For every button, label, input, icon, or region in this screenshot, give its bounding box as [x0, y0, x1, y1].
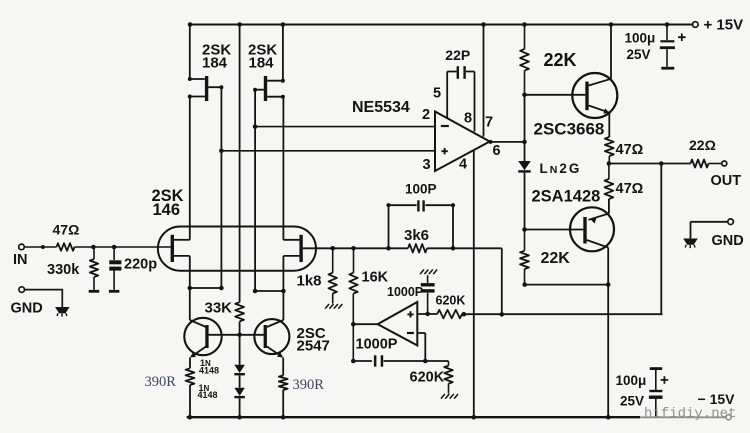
2SK184 no2 label	[248, 42, 277, 72]
svg-text:3k6: 3k6	[404, 227, 429, 244]
2SC3668 label	[534, 120, 605, 139]
2SK146 left drain lead	[174, 239, 190, 241]
wire 2SK184 no2 gate	[253, 88, 264, 127]
resistor 47R lower	[605, 164, 614, 200]
wire 22K lower to collector line	[522, 282, 610, 287]
wire right gate to feedback node	[303, 246, 408, 251]
1k8 ground hatch	[325, 304, 342, 309]
svg-text:4: 4	[459, 156, 467, 172]
resistor 22K lower	[520, 230, 529, 285]
left source node wire	[188, 286, 224, 291]
2SC3668 base bar	[585, 82, 588, 111]
svg-text:47Ω: 47Ω	[53, 222, 80, 238]
2SC3668 emitter wire with arrow	[589, 106, 610, 138]
47R lower label	[616, 181, 644, 197]
svg-text:2SA1428: 2SA1428	[532, 187, 601, 205]
right source node wire	[253, 289, 286, 294]
svg-text:2SC3668: 2SC3668	[534, 120, 605, 139]
resistor 390R no1	[186, 368, 195, 417]
IN label	[13, 252, 28, 268]
svg-text:1000P: 1000P	[356, 337, 398, 353]
IN terminal	[19, 244, 25, 250]
svg-text:100μ: 100μ	[616, 373, 647, 388]
base wire 2SA1428	[525, 229, 584, 231]
svg-text:390R: 390R	[145, 374, 177, 390]
1N4148 no2 label	[198, 383, 218, 400]
svg-text:100P: 100P	[405, 181, 437, 196]
transistor Q1 2SC2547 circle	[184, 318, 221, 355]
resistor 47R input	[57, 243, 75, 251]
resistor 3k6	[408, 244, 427, 252]
+15V terminal	[693, 22, 699, 28]
svg-text:OUT: OUT	[711, 173, 742, 189]
2SA1428 base node dot	[522, 227, 527, 232]
ground symbol output	[683, 239, 698, 249]
svg-text:620K: 620K	[436, 294, 466, 308]
wire 2SK184 no1 gate	[208, 85, 223, 151]
3k6 label	[404, 227, 429, 244]
wire to pin 3 non-inverting input	[221, 150, 435, 152]
svg-text:GND: GND	[11, 301, 43, 317]
svg-text:22P: 22P	[445, 47, 470, 63]
Q1 collector wire	[190, 288, 206, 327]
22K upper label	[544, 50, 577, 70]
47R input label	[53, 222, 80, 238]
pin 7 wire to +15V	[483, 25, 485, 137]
ground symbol input	[55, 307, 70, 317]
svg-text:hifidiy.net: hifidiy.net	[644, 406, 736, 422]
100p right wire	[425, 203, 455, 248]
wire 22K junction to diode	[524, 95, 526, 161]
620K lower ground hatch	[441, 394, 458, 399]
resistor 22K upper	[520, 25, 529, 95]
svg-text:2547: 2547	[297, 337, 330, 354]
capacitor 1000p upper	[421, 275, 435, 314]
svg-text:220p: 220p	[124, 257, 157, 273]
33K label	[205, 299, 233, 316]
Q2 2SC2547 label	[297, 325, 330, 355]
1000p upper ground hatch	[420, 270, 437, 275]
Q2 collector wire	[267, 291, 284, 327]
diode LN2G	[518, 161, 531, 230]
diode 1N4148 no1	[234, 335, 245, 376]
wire 2SK184 no1 source to 2SK146 drain	[188, 95, 205, 240]
servo non-inverting input wire	[417, 312, 437, 317]
wire GND output to ground	[691, 222, 728, 239]
1k8 label	[297, 272, 322, 289]
svg-text:22Ω: 22Ω	[689, 137, 716, 153]
330k label	[47, 262, 80, 278]
resistor 47R upper	[605, 137, 614, 164]
2SK184 no1 label	[202, 42, 231, 72]
Q1 base bar	[205, 325, 208, 348]
capacitor 1000p lower wire right	[384, 359, 449, 364]
svg-text:22K: 22K	[544, 50, 577, 70]
2SK146 right gate bar	[299, 235, 302, 262]
-15V terminal	[726, 415, 731, 420]
pin 6 label	[493, 143, 501, 159]
-15V rail faded extension	[640, 416, 726, 418]
620K lower label	[410, 370, 445, 386]
33K feed wire from rail	[239, 25, 241, 303]
-15V rail wire	[187, 416, 640, 418]
svg-text:5: 5	[433, 85, 441, 101]
base wire Q1-Q2	[209, 333, 264, 338]
pin 5 wire	[447, 72, 456, 119]
svg-text:NE5534: NE5534	[352, 99, 410, 116]
pin 4 wire to -15V	[473, 150, 475, 417]
svg-text:184: 184	[249, 55, 275, 72]
transistor 2SC3668 circle	[572, 73, 617, 118]
390R no2 label	[293, 377, 325, 393]
pin 5 label	[433, 85, 441, 101]
svg-text:25V: 25V	[627, 47, 651, 62]
op-amp U2 servo triangle	[378, 302, 418, 345]
OUT label	[711, 173, 742, 189]
svg-text:4148: 4148	[198, 390, 218, 400]
capacitor 100u 25V upper	[660, 25, 675, 70]
2SK146 left source lead	[174, 256, 190, 288]
capacitor 100u 25V lower	[649, 367, 663, 417]
resistor 1k8	[329, 248, 337, 303]
620K upper label	[436, 294, 466, 308]
svg-text:47Ω: 47Ω	[616, 181, 644, 197]
2SA1428 base bar	[583, 217, 586, 244]
transistor Q2 2SC2547 circle	[254, 319, 289, 354]
pin 4 label	[459, 156, 467, 172]
pin 3 label	[423, 157, 431, 173]
wire to pin 2 inverting input	[255, 126, 435, 128]
GND input terminal	[19, 287, 25, 293]
servo minus symbol	[407, 332, 414, 334]
resistor 16K	[349, 248, 357, 361]
watermark hifidiy.net	[644, 406, 736, 422]
svg-text:22K: 22K	[541, 250, 571, 267]
svg-text:620K: 620K	[410, 370, 445, 386]
wire rail to 2SK184 no1 drain	[188, 25, 205, 82]
resistor 620K lower	[444, 361, 452, 394]
plus symbol pin3	[441, 148, 447, 154]
svg-text:IN: IN	[13, 252, 28, 268]
GND output label	[712, 233, 744, 249]
390R no1 label	[145, 374, 177, 390]
+15V label	[704, 16, 744, 33]
svg-text:146: 146	[153, 201, 181, 219]
22p label	[445, 47, 470, 63]
capacitor 1000p lower plates	[374, 355, 383, 366]
pin 2 label	[422, 107, 430, 123]
svg-text:8: 8	[464, 110, 472, 126]
capacitor 100p plates	[417, 200, 425, 211]
pin 7 label	[485, 114, 493, 130]
22R label	[689, 137, 716, 153]
2SA1428 label	[532, 187, 601, 205]
JFET 2SK184 no1 channel bar	[205, 76, 208, 101]
wire to 2SK146 gate, node dots	[75, 245, 172, 250]
wire output node to sense line	[660, 164, 662, 315]
1N4148 no1 label	[199, 358, 219, 376]
svg-text:LN2G: LN2G	[540, 161, 582, 176]
svg-text:25V: 25V	[620, 393, 644, 408]
capacitor 1000p lower wire left	[351, 359, 372, 364]
op-amp U1 NE5534 triangle	[435, 112, 490, 172]
wire IN to R 47R	[24, 245, 56, 249]
100u lower plus sign	[661, 376, 669, 384]
2SK146 right source lead	[283, 256, 299, 291]
svg-text:4148: 4148	[199, 366, 219, 376]
svg-text:2: 2	[422, 107, 430, 123]
svg-text:16K: 16K	[362, 270, 389, 286]
wire 2SK184 no2 source to 2SK146 drain	[267, 95, 285, 240]
resistor 620K upper	[437, 310, 462, 318]
2SA1428 collector wire	[587, 240, 609, 417]
base wire 2SC3668	[522, 93, 585, 98]
wire 3k6 to output sense corner	[427, 246, 502, 314]
svg-text:3: 3	[423, 157, 431, 173]
1000P lower label	[356, 337, 398, 353]
LN2G label	[540, 161, 582, 176]
220p ground bar	[109, 290, 120, 293]
servo inverting input wire	[417, 333, 425, 361]
22K lower label	[541, 250, 571, 267]
svg-text:330k: 330k	[47, 262, 80, 278]
svg-text:33K: 33K	[205, 299, 233, 316]
GND input label	[11, 301, 43, 317]
servo output wire	[351, 322, 378, 327]
2SK146 left gate bar	[171, 235, 174, 262]
svg-text:GND: GND	[712, 233, 744, 249]
transistor 2SA1428 circle	[570, 207, 614, 251]
wire rail to 2SK184 no2 drain	[267, 25, 285, 83]
svg-text:184: 184	[202, 55, 228, 72]
330k ground bar	[89, 290, 100, 293]
capacitor 100p branch	[386, 203, 416, 248]
+15V rail wire	[190, 24, 693, 26]
100P label	[405, 181, 437, 196]
100u upper plus sign	[678, 34, 686, 42]
pin 8 label	[464, 110, 472, 126]
-15V label	[698, 391, 736, 407]
svg-text:7: 7	[485, 114, 493, 130]
wire GND terminal to ground	[25, 290, 63, 307]
pin 6 output wire	[489, 140, 527, 145]
svg-text:100μ: 100μ	[625, 30, 656, 45]
JFET 2SK184 no2 channel bar	[264, 76, 267, 101]
svg-text:+ 15V: + 15V	[704, 16, 744, 33]
resistor 22R output	[691, 160, 722, 168]
2SK146 right drain lead	[283, 239, 299, 241]
svg-text:47Ω: 47Ω	[616, 142, 644, 158]
Q2 base bar	[264, 325, 267, 348]
+15V rail junction dots	[188, 22, 670, 27]
output sense wire	[462, 312, 663, 317]
diode 1N4148 no2	[234, 375, 245, 417]
2SA1428 emitter wire with arrow	[588, 199, 609, 224]
svg-text:− 15V: − 15V	[698, 391, 736, 407]
capacitor 22p plates	[457, 66, 466, 79]
dual JFET 2SK146 outline	[158, 227, 316, 271]
Q2 emitter wire with arrow	[267, 347, 283, 376]
Q1 emitter wire with arrow	[190, 347, 206, 369]
100u upper label	[625, 30, 656, 62]
-15V rail junction dots	[188, 415, 611, 420]
2SC3668 collector wire	[589, 25, 611, 86]
pin 8 wire	[466, 72, 475, 132]
resistor 330k	[90, 247, 98, 290]
node junction gate1 to op-amp pin3 wire	[219, 149, 224, 289]
svg-text:1000P: 1000P	[387, 285, 423, 299]
svg-text:6: 6	[493, 143, 501, 159]
resistor 390R no2	[279, 375, 288, 417]
servo plus symbol	[407, 311, 413, 317]
resistor 33K	[235, 302, 244, 335]
output node wire	[607, 161, 691, 166]
svg-text:390R: 390R	[293, 377, 325, 393]
minus symbol pin2	[441, 125, 449, 127]
node junction gate2 to op-amp pin2 wire	[253, 124, 258, 291]
47R upper label	[616, 142, 644, 158]
220p label	[124, 257, 157, 273]
1000P upper label	[387, 285, 423, 299]
16K label	[362, 270, 389, 286]
svg-text:1k8: 1k8	[297, 272, 322, 289]
GND output terminal	[728, 219, 734, 225]
NE5534 label	[352, 99, 410, 116]
OUT terminal	[722, 161, 727, 166]
2SK146 label	[152, 187, 184, 219]
100u lower label	[616, 373, 647, 409]
capacitor 220p	[109, 247, 121, 290]
